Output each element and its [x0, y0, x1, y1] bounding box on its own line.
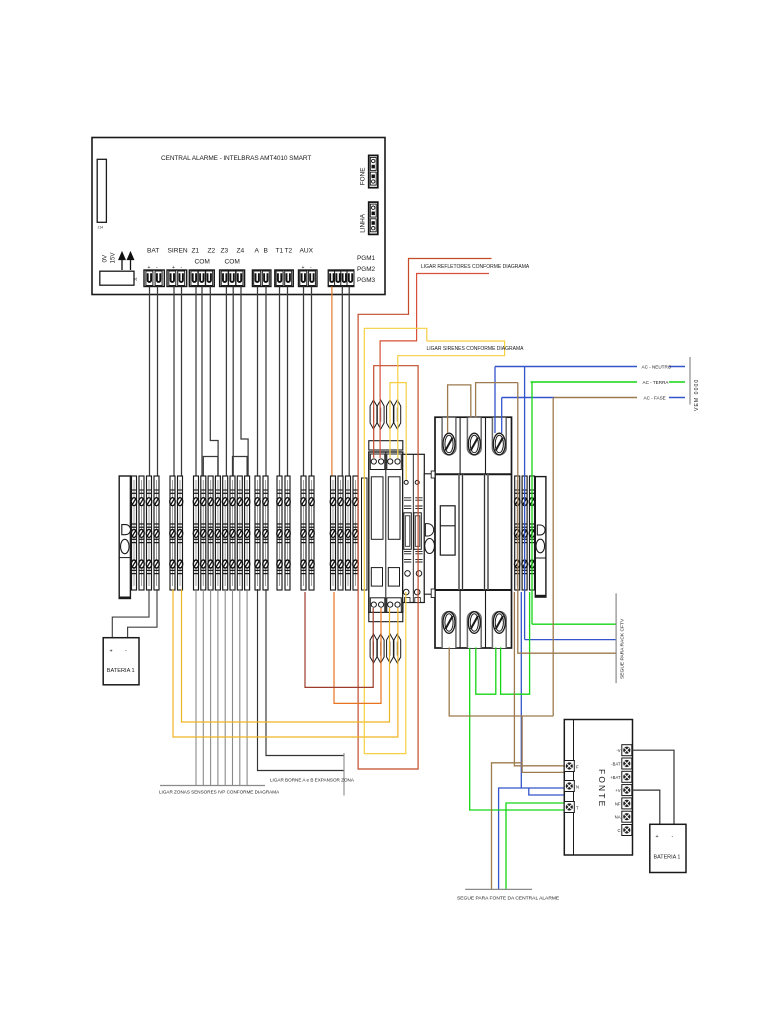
din group 1 BAT [131, 476, 159, 590]
green pole jumper [476, 592, 530, 694]
zone sensor wire 7 [239, 589, 241, 786]
svg-text:COM: COM [195, 259, 210, 266]
wire B [265, 287, 267, 477]
blue rack wire [525, 639, 617, 641]
wire T2 [287, 287, 289, 477]
brown jumper pole2 top [476, 383, 518, 418]
svg-text:+: + [656, 834, 659, 840]
fonte output terminals [610, 745, 632, 836]
wire SIREN- [181, 287, 183, 477]
svg-text:BAT: BAT [147, 248, 159, 255]
svg-text:-: - [672, 834, 674, 840]
yellow jumper fuse pole 3 to relay coil [390, 383, 406, 480]
wire Z4 jog [241, 287, 248, 477]
refletores wire 2 (PGM to fuse pole 2) [380, 274, 489, 459]
wire PGM3 [348, 287, 350, 477]
wire PGM1 orange [331, 287, 333, 477]
orange pgm loop [334, 592, 381, 703]
blue to fonte N b [529, 788, 565, 795]
din group 3 zones [193, 476, 250, 590]
zone sensor wire 3 [210, 589, 212, 786]
arrow 1 [119, 253, 125, 271]
battery 1 left box [103, 638, 139, 685]
brown fase branch [449, 647, 553, 716]
svg-text:T: T [576, 806, 579, 811]
terminal labels [147, 248, 314, 266]
green terra drop through strip3 [531, 382, 533, 624]
BAT terminal block [144, 270, 164, 287]
svg-text:FONTE: FONTE [597, 769, 607, 808]
svg-text:0V: 0V [102, 254, 109, 262]
svg-text:VEM 0000: VEM 0000 [694, 379, 700, 411]
blue to fonte N a [499, 592, 565, 889]
PGM terminal block [328, 270, 354, 287]
din group 4 AB [255, 476, 268, 590]
svg-text:AC - NEUTRO: AC - NEUTRO [642, 365, 672, 370]
fonte terminal N [564, 781, 579, 792]
svg-text:CENTRAL ALARME - INTELBRAS AMT: CENTRAL ALARME - INTELBRAS AMT4010 SMART [161, 155, 311, 162]
svg-text:J14: J14 [98, 226, 104, 230]
din group 6 AUX [301, 476, 314, 590]
brown fase long drop [552, 398, 554, 717]
svg-text:-BAT: -BAT [611, 762, 621, 767]
Z1 COM Z2 terminal block [189, 270, 214, 287]
wire B to expansor [258, 589, 345, 771]
green rack wire [532, 623, 616, 625]
svg-text:LIGAR SIRENES CONFORME DIAGRA: LIGAR SIRENES CONFORME DIAGRAMA [427, 346, 525, 352]
SIREN terminal block [167, 270, 187, 287]
wire Z2 jog [210, 287, 218, 477]
Z3 COM Z4 terminal block [220, 270, 245, 287]
relay body [403, 454, 425, 602]
wire T1 [279, 287, 281, 477]
svg-text:J1: J1 [134, 277, 138, 281]
din group 2 SIREN [170, 476, 183, 590]
blue neutro drop through strip2 [524, 367, 526, 640]
din group 7 PGM [330, 476, 358, 590]
zone sensor wire 6 [232, 589, 234, 786]
zone sensor wire 2 [202, 589, 204, 786]
T1 T2 terminal block [275, 270, 294, 287]
svg-text:+BAT: +BAT [610, 775, 621, 780]
svg-text:LIGAR REFLETORES CONFORME DIA: LIGAR REFLETORES CONFORME DIAGRAMA [421, 264, 530, 270]
wire COM2 [232, 287, 234, 477]
svg-text:PGM3: PGM3 [357, 277, 376, 284]
plus minus marks [148, 265, 313, 271]
ac terra rail [531, 380, 686, 385]
svg-text:BATERIA 1: BATERIA 1 [107, 668, 135, 674]
svg-text:-V: -V [616, 748, 620, 753]
wire BAT- [157, 287, 159, 477]
zone sensor wire 5 [224, 589, 226, 786]
relay side plate [424, 474, 435, 594]
brown rack wire [518, 383, 616, 654]
marker ovals below fuse [370, 634, 401, 663]
ac fase rail [502, 396, 685, 401]
svg-text:NF: NF [615, 801, 621, 806]
right end bracket [535, 477, 546, 597]
wire AUX- [311, 287, 313, 477]
zonas label line [160, 785, 265, 787]
zone sensor wire 8 [246, 589, 248, 786]
wire BAT+ [149, 287, 151, 477]
fonte box [564, 720, 632, 856]
svg-text:Z4: Z4 [237, 248, 245, 255]
svg-text:AC - FASE: AC - FASE [644, 396, 666, 401]
green long to fonte T [470, 648, 565, 890]
zone sensor wire 4 [217, 589, 219, 786]
PGM labels [357, 255, 376, 284]
svg-text:SEGUE PARA RACK CFTV: SEGUE PARA RACK CFTV [620, 618, 626, 679]
bridge Z com a [203, 457, 218, 477]
sienna aux loop [305, 592, 373, 687]
svg-text:PGM1: PGM1 [357, 255, 376, 262]
sirene underline to fuse pole 4 [398, 341, 505, 458]
refletores wire 1 (PGM to fuse pole 1) [358, 259, 491, 770]
fonte terminal T [564, 802, 579, 813]
svg-text:Z2: Z2 [208, 248, 216, 255]
marker ovals above fuse [370, 400, 401, 429]
blue neutro drop pole3 [494, 367, 496, 434]
svg-text:Z1: Z1 [192, 248, 200, 255]
sirene yellow left 2 [173, 589, 398, 737]
svg-text:BATERIA 1: BATERIA 1 [654, 855, 681, 861]
end bracket left [119, 476, 130, 599]
svg-text:-: - [125, 648, 127, 654]
svg-text:A: A [255, 248, 260, 255]
svg-text:Z3: Z3 [221, 248, 229, 255]
svg-text:AUX: AUX [300, 248, 314, 255]
LINHA connector [360, 202, 378, 234]
wire PGM2 [341, 287, 343, 477]
svg-text:T1: T1 [276, 248, 284, 255]
bridge Z com b [233, 457, 248, 477]
svg-text:LIGAR ZONAS SENSORES IVP CONFO: LIGAR ZONAS SENSORES IVP CONFORME DIAGRA… [159, 790, 280, 795]
wire A to expansor [266, 589, 344, 756]
wire Z3 [225, 287, 227, 477]
end plate [362, 478, 368, 590]
vem line [689, 357, 691, 405]
sirene pale yellow loop to relay [364, 328, 427, 753]
svg-text:NA: NA [615, 815, 621, 820]
wire fonte -V to battery [632, 750, 675, 824]
svg-text:T2: T2 [285, 248, 293, 255]
central alarm panel box [92, 138, 385, 295]
arrow 2 [128, 253, 134, 271]
svg-text:+: + [110, 649, 113, 655]
sirene yellow left 1 [182, 589, 390, 722]
zone sensor wire 1 [195, 589, 197, 786]
brown to segue [492, 763, 523, 890]
expansor end line [343, 753, 345, 796]
din group 5 T1T2 [277, 476, 290, 590]
wire Z1 [195, 287, 197, 477]
brown to fonte F a [514, 592, 565, 766]
wire SIREN+ [173, 287, 175, 477]
svg-text:SEGUE PARA FONTE DA CENTRAL AL: SEGUE PARA FONTE DA CENTRAL ALARME [457, 896, 560, 902]
svg-text:FONE: FONE [360, 168, 367, 186]
svg-text:LINHA: LINHA [360, 213, 367, 233]
battery connector J1 [100, 271, 138, 285]
svg-text:N: N [576, 785, 579, 790]
svg-text:PGM2: PGM2 [357, 266, 376, 273]
wire A [257, 287, 259, 477]
svg-text:F: F [576, 765, 579, 770]
svg-text:+V: +V [615, 788, 620, 793]
svg-text:LIGAR BORNE A e B EXPANSOR ZON: LIGAR BORNE A e B EXPANSOR ZONA [270, 778, 355, 783]
wire bat minus to battery [128, 589, 157, 638]
brown jumper pole1 top [448, 385, 471, 433]
0V 15V labels [102, 252, 117, 264]
ac neutro rail [495, 365, 685, 370]
connector J14 [97, 159, 106, 229]
svg-text:15V: 15V [110, 252, 117, 264]
FONE connector [360, 155, 378, 187]
fonte terminal F [564, 761, 579, 772]
svg-text:COM: COM [225, 259, 240, 266]
wire fonte +V to battery [632, 790, 660, 824]
wire COM1 [201, 287, 203, 477]
svg-text:SIREN: SIREN [168, 248, 188, 255]
svg-text:B: B [264, 248, 269, 255]
svg-text:C: C [617, 828, 620, 833]
A B terminal block [252, 270, 271, 287]
blue fase drop pole3 [501, 398, 503, 434]
wire AUX+ [303, 287, 305, 477]
battery 1 right box [650, 824, 686, 872]
AUX terminal block [299, 270, 318, 287]
wire bat plus to battery [112, 589, 149, 638]
brown to fonte F b [522, 716, 565, 772]
svg-text:AC - TERRA: AC - TERRA [643, 380, 670, 385]
